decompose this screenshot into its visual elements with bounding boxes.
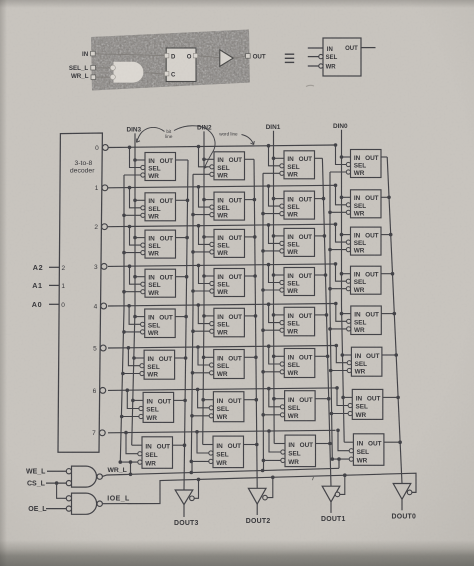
stray scan tick mark	[312, 477, 313, 480]
detail block input pin SEL_L	[69, 65, 95, 72]
IOE_L wire	[102, 473, 416, 504]
decoder output 1 bubble	[95, 185, 108, 192]
memory cell row 7 col DIN2	[209, 436, 244, 468]
memory cell row 7 col DIN3	[138, 437, 173, 469]
tri-state buffer DOUT2	[248, 477, 272, 515]
memory cell row 5 col DIN2	[210, 350, 245, 379]
memory cell row 4 col DIN1	[280, 307, 315, 336]
memory cell row 1 col DIN0	[346, 190, 381, 218]
memory cell row 4 col DIN2	[210, 308, 245, 337]
memory cell row 0 col DIN1	[280, 151, 315, 179]
wire IN to latch D	[95, 54, 166, 56]
word line 0 (row 0)	[108, 143, 346, 167]
decoder output 4 bubble	[94, 303, 107, 310]
word line 6 (row 6)	[108, 386, 348, 408]
memory cell row 5 col DIN1	[280, 349, 315, 378]
memory cell row 5 col DIN3	[140, 350, 175, 379]
memory cell row 3 col DIN3	[141, 269, 176, 297]
wire WR_L to AND gate	[96, 76, 111, 78]
cell symbol pin IN wire	[308, 47, 333, 53]
cell symbol pin SEL wire with bubble	[308, 54, 338, 61]
memory cell row 2 col DIN3	[141, 230, 176, 258]
output bit line column DIN0	[381, 157, 402, 484]
word line 2 (row 2)	[108, 222, 346, 245]
WR line column DIN2	[190, 174, 210, 472]
memory cell row 4 col DIN0	[347, 306, 382, 335]
AND gate (write enable) in detail block	[110, 62, 143, 83]
signal label CS_L	[27, 481, 66, 488]
wire SEL_L to AND gate	[95, 67, 111, 69]
memory cell row 6 col DIN3	[139, 392, 174, 422]
wire AND output to latch C	[146, 73, 166, 75]
decoder output 2 bubble	[94, 224, 107, 231]
DIN1 input bit line	[266, 124, 285, 444]
decoder input A0	[32, 300, 66, 309]
WR line column DIN3	[119, 175, 141, 474]
junction CS_L branch	[55, 481, 59, 485]
decoder output 6 bubble	[93, 388, 106, 395]
word line annotation	[219, 131, 254, 144]
memory cell row 6 col DIN2	[209, 392, 244, 422]
memory cell row 7 col DIN0	[349, 434, 384, 466]
D latch in detail block	[165, 48, 198, 82]
output bit line column DIN2	[244, 159, 259, 488]
decoder output 0 bubble	[95, 145, 108, 152]
wire CS_L to gate 2	[57, 483, 67, 498]
cell symbol pin WR wire with bubble	[308, 64, 336, 71]
output buffer triangle in detail block	[220, 50, 233, 67]
decoder output 7 bubble	[92, 430, 105, 437]
word line 7 (row 7)	[108, 429, 349, 454]
memory cell row 7 col DIN1	[281, 435, 316, 467]
detail block input pin IN	[82, 51, 95, 58]
DIN0 input bit line	[333, 123, 353, 442]
tri-state buffer DOUT1	[322, 475, 345, 513]
NAND gate G2 (CS_L,OE_L -> IOE_L)	[66, 493, 102, 514]
output bit line column DIN3	[173, 160, 190, 490]
memory cell row 1 col DIN1	[280, 191, 315, 219]
bit line annotation	[137, 126, 216, 169]
memory cell row 0 col DIN0	[346, 150, 381, 178]
memory cell row 1 col DIN3	[141, 193, 176, 221]
WR line column DIN0	[328, 172, 349, 468]
memory cell row 4 col DIN3	[141, 309, 176, 338]
word line 4 (row 4)	[108, 302, 347, 325]
memory cell row 2 col DIN1	[280, 228, 315, 256]
DIN3 input bit line	[127, 127, 146, 446]
wire buffer to OUT pin	[233, 56, 247, 58]
decoder output 5 bubble	[93, 345, 106, 352]
detail block input pin WR_L	[71, 73, 96, 80]
memory cell row 2 col DIN0	[346, 227, 381, 255]
detail block output pin OUT	[246, 53, 266, 60]
memory cell row 1 col DIN2	[210, 192, 245, 220]
tri-state buffer DOUT3	[175, 479, 198, 517]
memory cell row 2 col DIN2	[210, 229, 245, 257]
equivalence symbol	[285, 54, 294, 62]
stray scan smudge	[306, 85, 314, 86]
NAND gate G1 (WE_L,CS_L -> WR_L)	[66, 466, 102, 487]
WR line column DIN1	[261, 173, 281, 470]
memory cell symbol box	[323, 38, 361, 76]
WR_L wire	[102, 468, 339, 476]
memory cell row 3 col DIN0	[346, 266, 381, 294]
memory cell row 3 col DIN1	[280, 268, 315, 296]
decoder input A2	[33, 263, 66, 272]
3-to-8 decoder U1	[58, 133, 102, 452]
tri-state buffer DOUT0	[393, 484, 416, 511]
signal label OE_L	[28, 506, 66, 513]
decoder output 3 bubble	[94, 264, 107, 271]
DIN2 input bit line	[197, 125, 214, 445]
memory cell row 5 col DIN0	[347, 347, 382, 376]
decoder input A1	[32, 281, 65, 290]
word line 1 (row 1)	[108, 184, 346, 208]
word line 5 (row 5)	[108, 344, 347, 366]
cell symbol pin OUT wire	[345, 46, 375, 52]
memory cell internal-detail block (shaded)	[88, 27, 254, 95]
wire latch Q to buffer	[196, 56, 220, 58]
word line 3 (row 3)	[108, 262, 346, 284]
signal label WE_L	[26, 468, 66, 475]
memory cell row 0 col DIN2	[210, 152, 245, 180]
memory cell row 6 col DIN0	[348, 389, 383, 419]
memory cell row 0 col DIN3	[141, 153, 176, 181]
memory cell row 3 col DIN2	[210, 269, 245, 297]
output bit line column DIN1	[315, 158, 332, 486]
memory cell row 6 col DIN1	[280, 391, 315, 421]
